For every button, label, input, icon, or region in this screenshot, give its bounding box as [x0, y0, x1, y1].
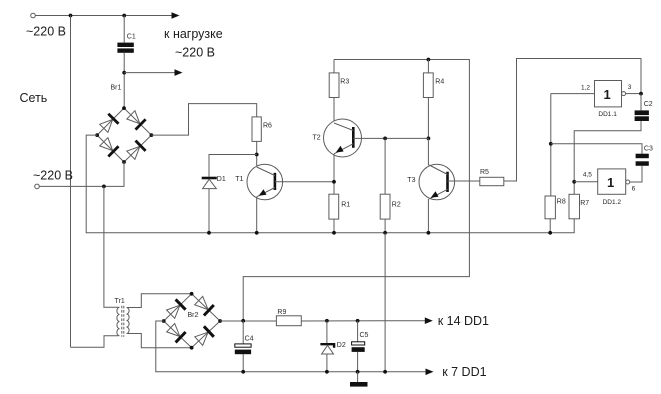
resistor R4: [423, 73, 433, 98]
node junction C5 top: [356, 319, 360, 323]
svg-text:Tr1: Tr1: [115, 298, 125, 305]
node junction C3 top net: [549, 142, 553, 146]
transistor T1: [247, 164, 283, 200]
svg-text:D1: D1: [217, 176, 226, 183]
wire secondary top to Br2: [127, 294, 192, 308]
arrowhead to load top: [172, 12, 180, 19]
wire R3 bottom to T2 collector: [333, 98, 335, 124]
capacitor C4 (polarized): [235, 344, 251, 354]
resistor R1: [329, 194, 339, 219]
svg-text:~220 В: ~220 В: [175, 45, 215, 59]
svg-text:T1: T1: [235, 176, 243, 183]
wire R1 bottom to bus: [333, 219, 335, 233]
capacitor C3: [636, 154, 649, 166]
wire T3 base to R5: [448, 180, 480, 182]
bridge Br2 diamond: [164, 294, 220, 348]
node junction top rail C1: [122, 14, 126, 18]
node junction C5 bottom / ground: [356, 370, 360, 374]
wire left mains vertical: [70, 16, 72, 348]
svg-text:4,5: 4,5: [583, 172, 592, 179]
svg-text:C2: C2: [644, 101, 653, 108]
svg-text:R3: R3: [340, 78, 349, 85]
wire R9 to k14 arrow: [301, 320, 425, 322]
wire T2 emitter down: [333, 154, 335, 194]
node junction D2 bottom: [325, 370, 329, 374]
svg-text:6: 6: [632, 185, 636, 192]
node junction DD1.1 out / C2: [639, 92, 643, 96]
svg-text:C5: C5: [360, 332, 369, 339]
resistor R2: [380, 194, 390, 219]
wire R6 bottom to T1 collector: [256, 141, 258, 167]
wire D1 to bus: [208, 189, 210, 233]
wire DD1.2 input: [574, 181, 598, 183]
svg-text:~220 В: ~220 В: [33, 168, 73, 182]
node junction x385 k7 rail: [383, 370, 387, 374]
arrowhead k14 DD1: [425, 317, 433, 324]
diode Br2 top-left: [167, 299, 186, 318]
svg-text:R2: R2: [392, 202, 401, 209]
wire T1 emitter to bus: [256, 197, 258, 233]
svg-text:C3: C3: [644, 145, 653, 152]
node Br2 left: [162, 319, 166, 323]
node Br1 top: [122, 106, 126, 110]
node junction load2 tap: [122, 71, 126, 75]
svg-text:3: 3: [628, 84, 632, 91]
wire C3 top net: [551, 144, 642, 154]
wire Br2 left to minus rail: [156, 321, 426, 372]
wire R2 bottom to bus: [384, 219, 386, 233]
wire T2 base to junction: [353, 137, 428, 139]
wire Br1 right to R6 top: [151, 104, 256, 136]
capacitor C1: [117, 43, 133, 53]
resistor R7: [569, 194, 580, 219]
resistor R3: [329, 73, 339, 98]
wire R2 top lead: [384, 138, 386, 194]
terminal top-left: [31, 13, 36, 18]
wire C3 bottom to DD1.2 output: [630, 166, 642, 182]
transistor T2: [324, 119, 362, 157]
node junction R1 bus: [332, 231, 336, 235]
wire top rail: [36, 15, 173, 17]
node junction R2 top: [383, 137, 387, 141]
diode Br1 bottom-left: [100, 138, 119, 157]
wire R2 net down to k7 rail: [384, 233, 386, 372]
node junction R4 top: [427, 58, 431, 62]
wire R5 to DD1.1 output net: [504, 59, 641, 182]
node junction DD1.2 input: [572, 180, 576, 184]
capacitor C2: [635, 110, 649, 121]
svg-text:R6: R6: [263, 122, 272, 129]
svg-text:1,2: 1,2: [581, 84, 590, 91]
ground symbol: [350, 372, 368, 387]
wire T3 emitter to bus: [427, 199, 429, 233]
svg-text:T3: T3: [407, 177, 415, 184]
bridge Br1 diamond: [97, 108, 151, 162]
wire C2 top lead: [640, 94, 642, 111]
arrowhead to load 2: [175, 69, 183, 76]
transformer Tr1 core: [121, 306, 123, 337]
wire R4 bottom to junction: [427, 98, 429, 139]
wire C1 to Br1 top: [123, 53, 125, 108]
node junction D1 bus: [207, 231, 211, 235]
svg-text:T2: T2: [313, 134, 321, 141]
node Br1 right: [150, 133, 154, 137]
node junction C4 top: [241, 319, 245, 323]
wire to D1: [209, 155, 257, 177]
wire Br1 left to ground bus: [86, 135, 574, 233]
node Br1 bottom: [122, 160, 126, 164]
wire Br2 right to R9: [220, 320, 276, 322]
node junction top rail left: [69, 14, 73, 18]
node junction C4 bottom: [241, 370, 245, 374]
diode Br2 bottom-right: [195, 326, 214, 345]
wire primary bottom jog: [71, 336, 119, 347]
svg-text:R7: R7: [580, 200, 589, 207]
wire DD1.1 output: [626, 93, 641, 95]
node junction D1 branch: [255, 153, 259, 157]
node junction mains2/primary: [102, 185, 106, 189]
wire C1 top lead: [123, 16, 125, 43]
capacitor C5 (polarized): [352, 342, 365, 352]
diode Br1 top-left: [100, 114, 119, 133]
wire R8 bottom to bus: [549, 219, 551, 233]
wire T3 collector: [427, 138, 429, 165]
node junction T2 base / R4 / T3 collector: [427, 137, 431, 141]
svg-text:DD1.1: DD1.1: [598, 111, 617, 118]
svg-text:D2: D2: [337, 342, 346, 349]
transformer Tr1 secondary coil: [127, 308, 130, 334]
svg-text:1: 1: [607, 175, 614, 190]
diode Br2 bottom-left: [167, 324, 186, 343]
svg-text:Br1: Br1: [111, 85, 122, 92]
node junction T2e/T1b/R1: [332, 180, 336, 184]
svg-text:R8: R8: [557, 199, 566, 206]
diode Br2 top-right: [195, 296, 214, 315]
wire C5 leads: [357, 321, 359, 372]
node junction T1 emitter bus: [255, 231, 259, 235]
resistor R9: [276, 316, 301, 326]
wire C4 leads: [242, 321, 244, 372]
wire supply rail upper: [243, 60, 469, 321]
svg-text:C1: C1: [127, 34, 136, 41]
resistor R8: [545, 196, 555, 219]
svg-text:R5: R5: [480, 169, 489, 176]
wire D2 leads: [326, 321, 328, 372]
wire R3 top: [333, 60, 335, 73]
svg-text:к 14 DD1: к 14 DD1: [438, 314, 489, 328]
node junction R2 bus: [383, 231, 387, 235]
svg-text:R1: R1: [341, 202, 350, 209]
node junction D2 top: [325, 319, 329, 323]
diode Br1 top-right: [127, 111, 146, 130]
wire DD1.1 input: [551, 93, 595, 95]
wire C2 bottom to DD1.2 input: [574, 121, 641, 194]
wire secondary bottom to Br2: [127, 334, 192, 348]
node Br1 left: [95, 133, 99, 137]
wire to load arrow 2: [124, 72, 175, 74]
node Br2 top: [190, 292, 194, 296]
svg-text:1: 1: [604, 87, 611, 102]
svg-text:Сеть: Сеть: [20, 91, 48, 105]
svg-text:~220 В: ~220 В: [26, 25, 66, 39]
gate DD1.1: [595, 81, 626, 107]
node junction R8 bus: [548, 231, 552, 235]
svg-text:R9: R9: [277, 309, 286, 316]
svg-text:Br2: Br2: [188, 312, 199, 319]
wire T1 base to T2 emitter junction: [275, 181, 334, 183]
wire R4 top: [427, 60, 429, 73]
svg-text:R4: R4: [435, 78, 444, 85]
arrowhead k7 DD1: [426, 369, 434, 376]
svg-text:к нагрузке: к нагрузке: [164, 27, 223, 41]
resistor R5: [480, 177, 504, 185]
svg-text:C4: C4: [245, 335, 254, 342]
resistor R6: [252, 117, 261, 141]
svg-text:DD1.2: DD1.2: [603, 199, 622, 206]
terminal mains 2: [35, 184, 40, 189]
transformer Tr1 primary coil: [117, 307, 120, 336]
svg-text:к 7 DD1: к 7 DD1: [442, 365, 486, 379]
node Br2 right: [218, 319, 222, 323]
wire primary top lead: [104, 186, 119, 307]
diode D2 (zener): [320, 344, 334, 354]
wire DD1.1 input down to R8: [550, 94, 552, 196]
diode Br1 bottom-right: [127, 141, 146, 160]
transistor T3: [419, 164, 455, 200]
wire Br1 bottom to mains terminal 2: [40, 162, 125, 186]
gate DD1.2: [598, 169, 630, 194]
node Br2 bottom: [190, 346, 194, 350]
node junction T3 emitter bus: [427, 231, 431, 235]
diode D1 (zener): [202, 178, 217, 189]
